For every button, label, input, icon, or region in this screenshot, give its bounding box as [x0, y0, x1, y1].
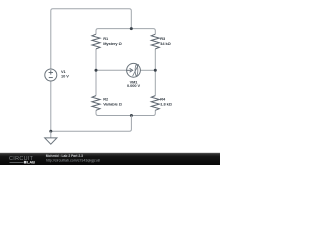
- wire from V1 top up and across to bridge stub: [51, 9, 132, 69]
- svg-text:44 kΩ: 44 kΩ: [160, 41, 170, 46]
- svg-text:LAB: LAB: [27, 160, 35, 165]
- voltage source V1: [45, 69, 57, 81]
- ground symbol: [45, 138, 57, 144]
- voltmeter VM1: [127, 63, 141, 77]
- node right mid junction dot: [154, 69, 157, 72]
- wire left branch middle: [95, 49, 97, 96]
- wire bridge bottom rail: [96, 110, 155, 115]
- resistor R3 zigzag: [151, 34, 159, 49]
- node top junction dot: [130, 27, 133, 30]
- wire bottom stub down: [51, 116, 132, 132]
- svg-text:R2: R2: [103, 96, 109, 101]
- resistor R2 zigzag: [92, 96, 100, 111]
- wire meter left: [96, 69, 127, 71]
- resistor R4 zigzag: [151, 96, 159, 111]
- svg-text:10 V: 10 V: [61, 74, 69, 79]
- wire V1 bottom: [50, 81, 52, 132]
- svg-text:1.8 kΩ: 1.8 kΩ: [160, 102, 171, 107]
- node ground junction dot: [49, 130, 52, 133]
- svg-text:http://circuitlab.com/c7s43qkg: http://circuitlab.com/c7s43qkgjzu8: [46, 158, 100, 162]
- resistor R1 zigzag: [92, 34, 100, 49]
- node bottom junction dot: [130, 114, 133, 117]
- footer logo square: [24, 161, 27, 164]
- wire ground stub: [50, 131, 52, 138]
- svg-text:Variable Ω: Variable Ω: [103, 102, 122, 107]
- svg-text:R4: R4: [160, 96, 166, 101]
- wire right branch middle: [154, 49, 156, 96]
- footer logo wave: [10, 162, 24, 164]
- wire bridge top rail: [96, 29, 155, 35]
- svg-text:Mystery Ω: Mystery Ω: [103, 41, 121, 46]
- footer bar: [0, 153, 220, 165]
- svg-text:0.000 V: 0.000 V: [127, 83, 141, 88]
- node left mid junction dot: [95, 69, 98, 72]
- wire meter right: [140, 69, 155, 71]
